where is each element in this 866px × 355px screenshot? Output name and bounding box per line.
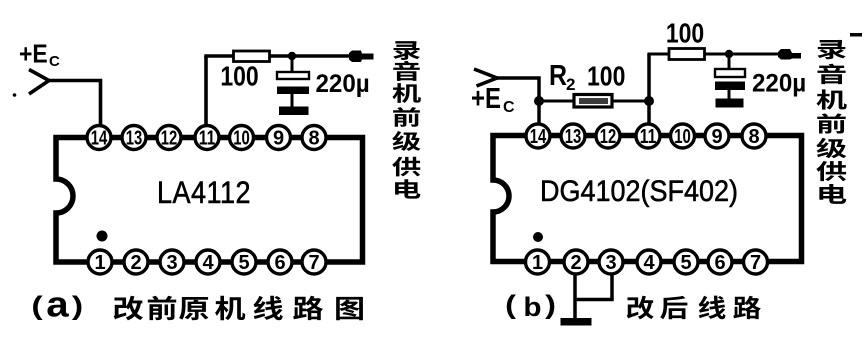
op-amp IC U2 DG4102(SF402) body outline with pin-1 notch <box>493 136 802 262</box>
op-amp IC U1 LA4112 body outline with pin-1 notch <box>56 138 363 263</box>
svg-text:b: b <box>523 292 541 322</box>
svg-text:a: a <box>46 284 69 325</box>
IC U2 pin 10 <box>671 124 695 148</box>
svg-text:): ) <box>72 292 83 320</box>
wire node A down to pin 14 <box>537 101 541 124</box>
ground (pins 2-3) <box>561 318 592 326</box>
capacitor C1 220u top lead <box>291 56 294 72</box>
svg-text:6: 6 <box>274 252 285 274</box>
capacitor C2 positive plate <box>715 69 745 77</box>
svg-text:12: 12 <box>161 128 178 150</box>
IC U1 pin 12 <box>157 126 181 150</box>
resistor R2 value 100 <box>587 62 625 92</box>
svg-text:11: 11 <box>640 126 657 148</box>
wire node A to resistor R2 <box>539 100 575 103</box>
svg-text:3: 3 <box>166 252 177 274</box>
ground (right C2) <box>716 99 744 108</box>
svg-text:LA4112: LA4112 <box>157 175 251 211</box>
junction node A (pin14 / R2) <box>534 96 544 106</box>
resistor 100 (right top) <box>669 49 705 60</box>
arrow to preamp supply (left) <box>349 51 374 63</box>
svg-text:5: 5 <box>680 252 691 274</box>
IC U1 pin 8 <box>302 126 326 150</box>
svg-text:6: 6 <box>714 252 725 274</box>
ground (left C1) <box>279 107 309 116</box>
svg-text:8: 8 <box>308 128 319 150</box>
IC U2 pin 13 <box>561 124 585 148</box>
caption text: before-modification original circuit <box>114 296 143 321</box>
svg-text:220µ: 220µ <box>752 70 806 98</box>
IC U2 pin 3 <box>599 250 623 274</box>
IC U1 pin 14 <box>87 126 111 150</box>
IC U2 pin 9 <box>705 124 729 148</box>
wire pin 3 jumper to pin 2 wire <box>575 273 612 300</box>
svg-text:(: ( <box>31 292 42 320</box>
resistor R2 designator <box>549 59 567 91</box>
IC U1 pin 1 <box>88 250 112 274</box>
capacitor C2 bottom lead <box>728 90 731 99</box>
IC U2 pin 2 <box>564 250 588 274</box>
svg-text:100: 100 <box>666 19 704 49</box>
IC U2 pin 8 <box>742 124 766 148</box>
junction node B (pin11) <box>644 96 654 106</box>
arrow to preamp supply (right) <box>778 49 801 60</box>
svg-text:8: 8 <box>748 126 759 148</box>
svg-text:4: 4 <box>643 252 655 274</box>
caption text: after-modification circuit <box>627 296 654 320</box>
IC U1 pin 5 <box>232 250 256 274</box>
capacitor C1 negative plate <box>277 87 309 95</box>
IC U1 label LA4112 <box>157 175 251 211</box>
svg-text:11: 11 <box>199 128 216 150</box>
IC U2 pin-1 orientation dot <box>533 232 543 242</box>
svg-text:14: 14 <box>530 126 547 148</box>
IC U2 pin 1 <box>526 250 550 274</box>
svg-text:2: 2 <box>566 75 575 94</box>
+Ec supply connector symbol (left) <box>29 70 49 95</box>
IC U1 pin 9 <box>267 126 291 150</box>
wire node B riser to top rail <box>647 54 651 101</box>
svg-text:100: 100 <box>587 62 625 92</box>
svg-text:2: 2 <box>130 252 141 274</box>
caption (a) <box>31 292 42 320</box>
svg-text:7: 7 <box>750 252 761 274</box>
IC U2 pin 11 <box>636 124 660 148</box>
svg-text:+E: +E <box>19 40 48 69</box>
svg-text:1: 1 <box>532 252 543 274</box>
svg-text:+E: +E <box>471 82 501 114</box>
svg-text:100: 100 <box>220 62 258 92</box>
IC U1 pin 3 <box>160 250 184 274</box>
wire R2 to node B <box>612 100 649 103</box>
+Ec label (left) <box>19 40 48 69</box>
svg-text:DG4102(SF402): DG4102(SF402) <box>540 175 738 208</box>
capacitor C2 220u top lead <box>728 54 731 69</box>
wire pin 2 to ground <box>573 273 577 319</box>
wire pin 11 riser to supply rail <box>204 56 208 126</box>
IC U2 pin 6 <box>708 250 732 274</box>
svg-text:3: 3 <box>605 252 616 274</box>
wire node B down to pin 11 <box>647 101 651 124</box>
svg-text:C: C <box>503 99 515 116</box>
junction node (left rail / C1) <box>288 52 296 60</box>
svg-text:C: C <box>49 53 60 70</box>
svg-text:): ) <box>545 291 556 320</box>
svg-text:2: 2 <box>570 252 581 274</box>
wire +Ec to node A <box>497 78 539 101</box>
IC U2 pin 14 <box>526 124 550 148</box>
svg-text:220µ: 220µ <box>316 71 370 99</box>
svg-text:12: 12 <box>600 126 617 148</box>
svg-text:1: 1 <box>94 252 105 274</box>
resistor value 100 (right top) <box>666 19 704 49</box>
scan speck left <box>13 93 17 97</box>
svg-text:13: 13 <box>126 128 143 150</box>
svg-text:5: 5 <box>238 252 249 274</box>
caption (b) <box>505 291 516 320</box>
capacitor C2 negative plate <box>715 82 745 91</box>
IC U1 pin-1 orientation dot <box>97 231 108 242</box>
net label: recorder preamp supply (right, vertical) <box>818 40 846 59</box>
IC U1 pin 6 <box>268 250 292 274</box>
junction node C (rail / C2) <box>725 50 733 58</box>
capacitor value 220u (left) <box>316 71 370 99</box>
resistor 100 (left) <box>234 51 270 62</box>
+Ec supply connector symbol (right) <box>474 69 497 86</box>
capacitor C1 positive plate <box>277 72 309 79</box>
IC U2 pin 4 <box>637 250 661 274</box>
capacitor C1 bottom lead <box>291 94 294 107</box>
IC U1 pin 13 <box>122 126 146 150</box>
wire top supply rail (right) <box>647 53 782 56</box>
IC U2 pin 12 <box>596 124 620 148</box>
svg-text:9: 9 <box>711 126 722 148</box>
IC U1 pin 2 <box>124 250 148 274</box>
capacitor value 220u (right) <box>752 70 806 98</box>
IC U2 label DG4102(SF402) <box>540 175 738 208</box>
IC U2 pin 5 <box>674 250 698 274</box>
svg-text:R: R <box>549 59 567 91</box>
IC U1 pin 10 <box>230 126 254 150</box>
svg-text:13: 13 <box>565 126 582 148</box>
svg-text:4: 4 <box>202 252 214 274</box>
svg-text:7: 7 <box>308 252 319 274</box>
svg-text:14: 14 <box>91 128 108 150</box>
svg-text:9: 9 <box>273 128 284 150</box>
IC U1 pin 11 <box>195 126 219 150</box>
wire supply rail (left) <box>204 54 352 58</box>
svg-text:(: ( <box>505 291 516 320</box>
resistor R2 body <box>574 95 612 108</box>
svg-text:10: 10 <box>233 128 250 150</box>
resistor value 100 (left) <box>220 62 258 92</box>
IC U1 pin 7 <box>302 250 326 274</box>
IC U2 pin 7 <box>744 250 768 274</box>
scan speck top right <box>850 33 862 37</box>
+Ec label (right) <box>471 82 501 114</box>
wire +Ec to pin 14 <box>49 81 101 127</box>
svg-text:10: 10 <box>674 126 691 148</box>
IC U1 pin 4 <box>196 250 220 274</box>
net label: recorder preamp supply (left, vertical) <box>393 41 420 60</box>
